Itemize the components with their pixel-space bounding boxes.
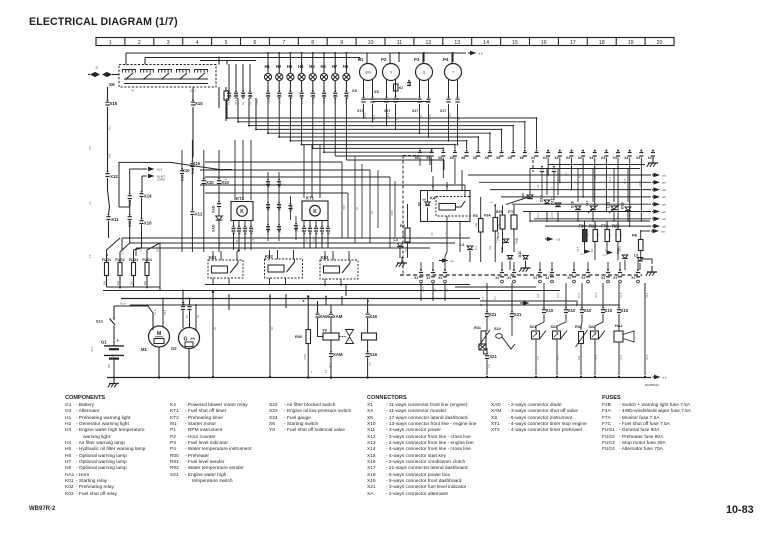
svg-text:M2.5: M2.5	[313, 236, 316, 242]
svg-text:XT1: XT1	[327, 228, 331, 235]
svg-text:0.5: 0.5	[369, 362, 372, 366]
svg-text:COND.: COND.	[157, 178, 166, 182]
svg-text:N1.5: N1.5	[609, 176, 612, 182]
svg-text:Y0: Y0	[322, 328, 328, 333]
svg-text:X17: X17	[289, 92, 293, 99]
svg-text:0.5: 0.5	[431, 232, 434, 236]
svg-text:X8: X8	[519, 156, 523, 160]
svg-text:50A: 50A	[144, 280, 147, 285]
svg-text:H0.5: H0.5	[164, 309, 167, 315]
svg-text:15/54: 15/54	[112, 353, 115, 360]
svg-text:L6: L6	[634, 254, 638, 258]
svg-text:X18: X18	[278, 204, 282, 211]
svg-text:X10: X10	[568, 308, 576, 313]
svg-text:X8: X8	[408, 81, 412, 86]
svg-text:50: 50	[242, 102, 245, 105]
svg-text:K: K	[240, 209, 244, 215]
svg-text:R31: R31	[474, 326, 481, 330]
svg-text:A20: A20	[236, 239, 239, 244]
svg-text:M2.5: M2.5	[646, 354, 649, 360]
svg-text:X8: X8	[450, 156, 454, 160]
svg-text:S22: S22	[589, 325, 596, 329]
svg-text:7.5: 7.5	[598, 233, 600, 237]
svg-text:8: 8	[311, 40, 314, 46]
svg-text:7.5: 7.5	[621, 233, 623, 237]
svg-text:G1: G1	[101, 340, 107, 345]
svg-text:X21: X21	[489, 354, 497, 359]
svg-text:XS: XS	[352, 89, 358, 93]
svg-text:J2: J2	[95, 66, 99, 70]
svg-text:X17: X17	[267, 92, 271, 99]
svg-text:R1.5: R1.5	[515, 238, 518, 244]
svg-text:X1: X1	[533, 276, 537, 280]
svg-text:20: 20	[657, 40, 663, 46]
svg-text:X17: X17	[334, 92, 338, 99]
svg-text:7: 7	[282, 40, 285, 46]
svg-text:A20: A20	[537, 293, 540, 298]
svg-text:5: 5	[225, 40, 228, 46]
svg-text:R3: R3	[473, 214, 478, 218]
svg-text:5.5: 5.5	[326, 369, 328, 373]
svg-text:XAM: XAM	[333, 314, 343, 319]
svg-text:X16: X16	[192, 161, 200, 166]
svg-text:13: 13	[454, 40, 460, 46]
svg-text:X16: X16	[191, 168, 195, 174]
svg-text:b5: b5	[423, 198, 427, 202]
svg-text:a.b: a.b	[662, 210, 666, 214]
svg-text:X21: X21	[514, 312, 522, 317]
svg-text:D10: D10	[500, 247, 504, 253]
svg-text:a.b: a.b	[662, 203, 666, 207]
svg-text:X17: X17	[278, 92, 282, 99]
svg-text:R1.5: R1.5	[624, 178, 627, 184]
svg-text:X8: X8	[473, 156, 477, 160]
svg-text:D9: D9	[417, 202, 421, 206]
svg-text:H0.5: H0.5	[235, 99, 238, 105]
svg-text:D17: D17	[550, 198, 554, 205]
svg-text:15: 15	[512, 40, 518, 46]
svg-text:K2: K2	[399, 86, 403, 90]
svg-text:X15: X15	[110, 101, 118, 106]
svg-text:X19: X19	[278, 181, 282, 188]
svg-text:X8: X8	[438, 156, 442, 160]
svg-text:X16: X16	[242, 92, 246, 99]
svg-text:H0.5: H0.5	[387, 112, 390, 118]
svg-text:50: 50	[186, 315, 189, 318]
svg-text:X11: X11	[111, 217, 119, 222]
svg-text:X1: X1	[631, 276, 635, 280]
svg-text:a.b: a.b	[662, 217, 666, 221]
svg-text:1.6W: 1.6W	[476, 222, 478, 228]
svg-text:XT2: XT2	[232, 228, 236, 235]
svg-text:2.5: 2.5	[565, 172, 568, 176]
svg-text:2.5: 2.5	[89, 254, 92, 258]
svg-text:D15: D15	[521, 193, 525, 199]
svg-text:30: 30	[197, 315, 200, 318]
svg-text:50A: 50A	[130, 280, 133, 285]
svg-text:X1: X1	[545, 276, 549, 280]
svg-text:X15: X15	[195, 101, 203, 106]
svg-text:G1.5: G1.5	[154, 309, 157, 315]
svg-text:a.b: a.b	[662, 195, 666, 199]
svg-text:R6: R6	[632, 233, 638, 238]
svg-text:A20: A20	[489, 245, 492, 250]
svg-text:R1.5: R1.5	[578, 292, 581, 298]
svg-text:N1.5: N1.5	[334, 98, 337, 104]
svg-text:AV: AV	[131, 89, 135, 93]
svg-text:1.5: 1.5	[488, 364, 491, 368]
svg-text:KT2: KT2	[236, 196, 245, 201]
svg-text:S13: S13	[96, 320, 103, 324]
svg-text:X16: X16	[369, 352, 377, 357]
svg-text:N1.5: N1.5	[252, 238, 255, 244]
svg-text:D18: D18	[570, 201, 574, 208]
svg-text:X1: X1	[507, 276, 511, 280]
svg-text:XT1: XT1	[303, 228, 307, 235]
svg-text:A20: A20	[109, 153, 112, 158]
svg-text:L23: L23	[606, 202, 610, 208]
svg-text:A20: A20	[594, 175, 597, 180]
svg-text:N1.5: N1.5	[595, 354, 598, 360]
svg-text:X10: X10	[584, 308, 592, 313]
svg-text:L13: L13	[585, 200, 589, 206]
svg-text:3: 3	[167, 40, 170, 46]
svg-text:G1.5: G1.5	[551, 212, 554, 218]
svg-text:15/54: 15/54	[429, 113, 432, 120]
svg-text:R4: R4	[400, 223, 406, 228]
svg-text:X10: X10	[278, 226, 282, 233]
svg-text:X19: X19	[267, 181, 271, 188]
svg-text:B+1: B+1	[579, 173, 582, 178]
svg-text:R1.5: R1.5	[305, 236, 308, 242]
svg-text:F7A: F7A	[601, 224, 609, 229]
svg-text:30: 30	[249, 102, 252, 105]
svg-text:X8: X8	[508, 156, 512, 160]
svg-text:M: M	[157, 331, 161, 337]
svg-text:M2.5: M2.5	[595, 292, 598, 298]
svg-text:X10: X10	[182, 168, 190, 173]
svg-text:G1.5: G1.5	[321, 236, 324, 242]
svg-text:R32: R32	[575, 325, 582, 329]
svg-text:B+1: B+1	[475, 245, 478, 250]
svg-text:a.b: a.b	[663, 375, 667, 379]
svg-text:+15: +15	[556, 238, 561, 241]
svg-text:X17: X17	[323, 92, 327, 99]
svg-text:15/54: 15/54	[256, 98, 259, 105]
svg-text:X10: X10	[621, 308, 629, 313]
svg-text:X8: X8	[485, 156, 489, 160]
svg-text:X17: X17	[412, 109, 418, 113]
svg-text:M2.5: M2.5	[537, 212, 540, 218]
svg-text:X1: X1	[438, 276, 442, 280]
svg-text:9: 9	[340, 40, 343, 46]
svg-text:Adce: Adce	[120, 303, 126, 306]
svg-text:X10: X10	[181, 175, 185, 181]
svg-text:R25: R25	[496, 210, 502, 214]
svg-text:X10: X10	[289, 205, 293, 212]
svg-text:P0.5: P0.5	[449, 112, 452, 118]
svg-text:X4: X4	[624, 156, 628, 160]
svg-text:RKZ05210: RKZ05210	[645, 383, 659, 387]
svg-text:50: 50	[396, 117, 399, 120]
svg-text:X4: X4	[543, 156, 547, 160]
svg-text:a.b: a.b	[661, 229, 665, 233]
svg-text:M2.5: M2.5	[639, 180, 642, 186]
svg-text:S24: S24	[494, 327, 502, 331]
svg-text:X4: X4	[566, 156, 570, 160]
svg-text:N1.5: N1.5	[122, 249, 125, 255]
svg-text:X12: X12	[110, 174, 118, 179]
svg-text:0.5: 0.5	[89, 146, 92, 150]
svg-text:A20: A20	[578, 355, 581, 360]
svg-text:X16: X16	[369, 314, 377, 319]
svg-text:17: 17	[570, 40, 576, 46]
svg-text:P4: P4	[443, 57, 449, 62]
svg-text:S23: S23	[551, 325, 558, 329]
svg-text:XT1: XT1	[321, 228, 325, 235]
svg-text:XAD: XAD	[212, 224, 216, 232]
svg-text:X1: X1	[601, 276, 605, 280]
svg-text:15/54: 15/54	[619, 245, 622, 252]
svg-text:50A: 50A	[103, 280, 106, 285]
svg-text:X4: X4	[636, 156, 640, 160]
svg-text:2: 2	[138, 40, 141, 46]
svg-text:15/54: 15/54	[391, 209, 394, 216]
svg-text:K: K	[313, 209, 317, 215]
svg-text:XAD: XAD	[212, 205, 216, 213]
svg-text:N50: N50	[109, 363, 111, 368]
svg-text:50: 50	[591, 249, 594, 252]
svg-text:B+1: B+1	[494, 295, 497, 300]
svg-text:B+1: B+1	[557, 355, 560, 360]
svg-text:50: 50	[214, 327, 217, 330]
svg-text:X4: X4	[613, 156, 617, 160]
svg-text:N1.5: N1.5	[557, 292, 560, 298]
svg-text:5: 5	[311, 372, 313, 374]
svg-text:a.b: a.b	[662, 173, 666, 177]
svg-text:4: 4	[196, 40, 199, 46]
svg-text:X1: X1	[567, 276, 571, 280]
svg-text:Q: Q	[423, 71, 426, 75]
svg-text:X4: X4	[601, 156, 605, 160]
svg-text:P0.5: P0.5	[422, 286, 425, 292]
svg-text:D11: D11	[518, 251, 522, 257]
svg-text:XS: XS	[374, 90, 380, 94]
svg-text:R13: R13	[589, 224, 597, 229]
svg-text:X10: X10	[546, 308, 554, 313]
svg-text:R30: R30	[295, 334, 302, 339]
svg-text:X4: X4	[648, 156, 652, 160]
svg-text:7.5: 7.5	[610, 233, 612, 237]
svg-text:XAM: XAM	[319, 314, 329, 319]
svg-text:S6: S6	[109, 82, 115, 87]
svg-text:X21: X21	[489, 312, 497, 317]
svg-text:X18: X18	[267, 204, 271, 211]
svg-text:M2.5: M2.5	[157, 246, 160, 252]
svg-text:16: 16	[541, 40, 547, 46]
svg-text:X1: X1	[613, 276, 617, 280]
svg-text:X17: X17	[345, 92, 349, 99]
svg-text:G1.5: G1.5	[620, 292, 623, 298]
svg-text:X1: X1	[414, 276, 418, 280]
svg-text:1.5: 1.5	[446, 288, 449, 292]
svg-text:X1: X1	[426, 276, 430, 280]
svg-text:X4: X4	[531, 156, 535, 160]
svg-text:KT1: KT1	[306, 196, 315, 201]
svg-text:K4: K4	[430, 196, 436, 201]
svg-text:XT1: XT1	[309, 228, 313, 235]
svg-text:+15: +15	[489, 202, 493, 204]
svg-text:X10: X10	[605, 308, 613, 313]
svg-text:0.5: 0.5	[434, 288, 437, 292]
svg-text:X17: X17	[311, 92, 315, 99]
svg-text:X4: X4	[578, 156, 582, 160]
svg-text:X17: X17	[357, 109, 363, 113]
svg-text:X10: X10	[144, 221, 152, 226]
svg-text:X17: X17	[440, 109, 446, 113]
svg-text:H0.5: H0.5	[343, 204, 346, 210]
svg-text:a.b: a.b	[662, 188, 666, 192]
svg-text:X15: X15	[228, 92, 232, 99]
svg-text:X17: X17	[300, 92, 304, 99]
svg-text:a.b: a.b	[479, 51, 483, 55]
svg-text:1.5: 1.5	[89, 201, 92, 205]
svg-text:1: 1	[109, 40, 112, 46]
svg-text:a.b: a.b	[662, 181, 666, 185]
svg-text:X8: X8	[415, 156, 419, 160]
svg-text:R1.5: R1.5	[345, 98, 348, 104]
svg-text:2.5: 2.5	[537, 356, 540, 360]
svg-text:R23: R23	[612, 224, 620, 229]
svg-text:12: 12	[425, 40, 431, 46]
svg-text:X10: X10	[267, 226, 271, 233]
svg-text:P3: P3	[414, 57, 420, 62]
svg-text:L3: L3	[460, 243, 464, 247]
svg-text:D13: D13	[496, 232, 500, 238]
svg-text:50: 50	[356, 207, 359, 210]
svg-text:14: 14	[483, 40, 489, 46]
svg-text:P2: P2	[381, 57, 387, 62]
svg-text:P1: P1	[358, 57, 364, 62]
svg-text:T: T	[452, 71, 454, 75]
svg-text:X4: X4	[554, 156, 558, 160]
svg-text:G1.5: G1.5	[228, 99, 231, 105]
svg-text:D19: D19	[620, 202, 624, 209]
svg-text:M1: M1	[141, 347, 147, 352]
svg-text:X4: X4	[589, 156, 593, 160]
svg-text:30: 30	[271, 327, 274, 330]
svg-text:N1.5: N1.5	[503, 238, 506, 244]
svg-text:P0.5: P0.5	[91, 346, 94, 352]
svg-text:X10: X10	[295, 225, 299, 232]
svg-text:30: 30	[420, 115, 423, 118]
svg-text:+: +	[117, 338, 120, 343]
svg-text:+15: +15	[580, 254, 584, 256]
svg-text:S21: S21	[530, 325, 537, 329]
svg-text:7.5: 7.5	[588, 233, 590, 237]
svg-text:0.5: 0.5	[458, 116, 461, 120]
svg-text:F3A: F3A	[484, 214, 491, 218]
svg-text:2.5: 2.5	[482, 296, 485, 300]
svg-text:D16: D16	[539, 195, 543, 202]
svg-text:G2: G2	[171, 346, 177, 351]
svg-text:11: 11	[397, 40, 402, 46]
svg-text:X11: X11	[195, 212, 203, 217]
svg-text:G1.5: G1.5	[373, 114, 376, 120]
svg-text:X17: X17	[384, 109, 390, 113]
svg-text:h: h	[390, 71, 392, 75]
svg-text:P0.5: P0.5	[268, 98, 271, 104]
svg-text:B+1: B+1	[109, 125, 112, 130]
svg-text:X8: X8	[496, 156, 500, 160]
svg-text:X10: X10	[206, 180, 214, 185]
svg-text:0.5: 0.5	[537, 184, 540, 188]
svg-text:X1: X1	[581, 276, 585, 280]
svg-text:XT2: XT2	[244, 228, 248, 235]
svg-text:F30: F30	[579, 224, 587, 229]
svg-text:M2.5: M2.5	[364, 112, 367, 118]
svg-text:P0.5: P0.5	[405, 246, 408, 252]
svg-text:a.b: a.b	[662, 224, 666, 228]
svg-text:XT1: XT1	[315, 228, 319, 235]
svg-text:rpm: rpm	[365, 71, 371, 75]
svg-text:XT2: XT2	[238, 228, 242, 235]
svg-text:H0.5: H0.5	[577, 246, 580, 252]
svg-text:L4: L4	[394, 238, 398, 242]
svg-text:18: 18	[599, 40, 605, 46]
svg-text:P0.5: P0.5	[329, 362, 332, 368]
svg-text:19: 19	[628, 40, 634, 46]
svg-text:30: 30	[371, 211, 374, 214]
svg-text:X8: X8	[461, 156, 465, 160]
svg-text:10: 10	[368, 40, 374, 46]
svg-text:+15: +15	[602, 255, 606, 257]
svg-text:a.b: a.b	[451, 260, 455, 263]
svg-text:XAM: XAM	[333, 352, 343, 357]
svg-text:6: 6	[254, 40, 257, 46]
svg-text:50A: 50A	[117, 280, 120, 285]
svg-text:X8: X8	[426, 156, 430, 160]
svg-text:4.13: 4.13	[157, 167, 163, 171]
svg-text:H0.5: H0.5	[646, 292, 649, 298]
svg-text:X1: X1	[495, 276, 499, 280]
svg-text:R1.5: R1.5	[140, 246, 143, 252]
svg-text:B+1: B+1	[219, 241, 222, 246]
svg-text:B+1: B+1	[312, 99, 315, 104]
svg-text:XT2: XT2	[250, 228, 254, 235]
svg-text:R1.5: R1.5	[620, 354, 623, 360]
svg-text:A20: A20	[323, 99, 326, 104]
svg-text:X14: X14	[144, 194, 152, 199]
svg-text:15/54: 15/54	[304, 353, 307, 360]
